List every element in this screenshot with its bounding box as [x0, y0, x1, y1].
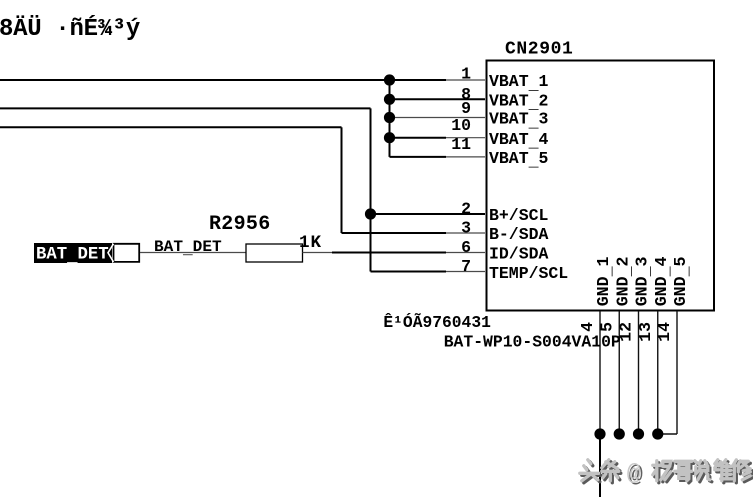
svg-text:5: 5 — [597, 322, 616, 332]
svg-text:7: 7 — [461, 257, 471, 276]
svg-text:10: 10 — [451, 116, 471, 135]
wire to pin 7 TEMP/SCL — [371, 271, 447, 273]
svg-text:11: 11 — [451, 135, 471, 154]
connector U: CN2901 body — [487, 61, 715, 311]
junction dot B+/SCL — [365, 208, 376, 219]
wire net VBAT from left edge to pin 1 — [0, 79, 446, 81]
pin stub 11 — [446, 156, 485, 158]
junction dot GND c — [633, 428, 644, 439]
port BAT_DET black box — [34, 243, 112, 263]
wire to pin 11 — [390, 156, 447, 158]
svg-text:B+/SCL: B+/SCL — [489, 206, 549, 225]
wire net B-/SDA from left edge y=127 — [0, 126, 342, 128]
pin stub 1 — [446, 79, 485, 81]
wire port to resistor (grey) — [140, 252, 246, 254]
svg-text:BAT_DET: BAT_DET — [36, 245, 109, 267]
junction dot pin10 net — [384, 132, 395, 143]
junction dot GND a — [594, 428, 605, 439]
bottom pin line GND_2 — [618, 311, 620, 434]
resistor R2956 body — [246, 244, 303, 262]
wire ID/SDA black segment — [332, 252, 446, 254]
wire to pin 10 — [390, 137, 447, 139]
wire VBAT vertical bus — [389, 80, 391, 157]
svg-text:BAT-WP10-S004VA10P: BAT-WP10-S004VA10P — [444, 333, 621, 352]
svg-text:4: 4 — [578, 322, 597, 332]
svg-text:VBAT_3: VBAT_3 — [489, 110, 549, 132]
svg-text:1K: 1K — [299, 233, 322, 253]
svg-text:GND_5: GND_5 — [671, 256, 693, 306]
svg-text:@: @ — [627, 461, 641, 488]
svg-text:1: 1 — [461, 65, 471, 84]
svg-text:R2956: R2956 — [209, 213, 271, 236]
watermark toutiao @yangge (drawn strokes, grey embossed) — [580, 460, 753, 490]
svg-text:8ÄÜ ·ñÉ¾³ý: 8ÄÜ ·ñÉ¾³ý — [0, 15, 140, 43]
wire GND_5 jog to GND_4 — [658, 433, 677, 435]
svg-text:VBAT_5: VBAT_5 — [489, 149, 549, 171]
svg-text:TEMP/SCL: TEMP/SCL — [489, 264, 568, 283]
svg-text:13: 13 — [636, 322, 655, 342]
junction dot GND b — [614, 428, 625, 439]
junction dot GND d — [652, 428, 663, 439]
svg-text:BAT_DET: BAT_DET — [154, 238, 222, 259]
wire branch to pin 2 — [371, 213, 486, 215]
wire GND down to edge — [599, 434, 601, 497]
pin stub 7 — [446, 271, 485, 273]
junction dot pin9 net — [384, 112, 395, 123]
bottom pin line GND_1 — [599, 311, 601, 434]
pin stub 10 — [446, 137, 485, 139]
svg-text:Ê¹ÓÃ9760431: Ê¹ÓÃ9760431 — [383, 313, 491, 332]
wire to pin 3 — [342, 232, 447, 234]
svg-text:14: 14 — [655, 322, 674, 342]
wire net B+/SCL from left edge y=108 — [0, 107, 371, 109]
svg-text:6: 6 — [461, 238, 471, 257]
junction dot pin1 net — [384, 74, 395, 85]
bottom pin line GND_4 — [657, 311, 659, 434]
pin stub 6 — [446, 252, 485, 254]
svg-text:3: 3 — [461, 218, 471, 237]
svg-text:B-/SDA: B-/SDA — [489, 225, 549, 244]
svg-text:CN2901: CN2901 — [505, 40, 573, 60]
wire resistor to net (grey segment) — [303, 252, 333, 254]
svg-text:2: 2 — [461, 199, 471, 218]
port BAT_DET white pointed box — [114, 244, 140, 262]
bottom pin line GND_3 — [638, 311, 640, 434]
junction dot pin8 net — [384, 94, 395, 105]
wire to pin 8 — [390, 98, 486, 100]
pin stub 3 — [446, 232, 485, 234]
svg-text:ID/SDA: ID/SDA — [489, 245, 549, 264]
wire vertical x=370 — [370, 108, 372, 271]
bottom pin line GND_5 — [676, 311, 678, 434]
wire vertical x=341 — [341, 127, 343, 233]
pin stub 9 — [390, 117, 486, 119]
